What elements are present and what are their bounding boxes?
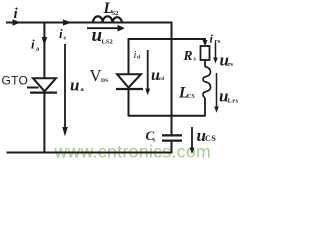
svg-text:rd: rd [159, 77, 164, 82]
arrow is (current into snubber) [63, 19, 72, 25]
inductor LS2 (stray inductance) [93, 16, 122, 22]
wire: diode cathode lead [128, 89, 130, 117]
arrow i (current into circuit) [13, 19, 21, 25]
wire: GTO anode lead [43, 23, 45, 79]
svg-text:rs: rs [228, 62, 234, 68]
svg-text:R: R [183, 48, 193, 63]
wire: GTO cathode lead [43, 93, 45, 154]
arrow ia (anode current) [42, 37, 48, 46]
svg-text:d: d [137, 55, 140, 61]
arrow irs (into R branch) [203, 40, 208, 46]
diode VDS [116, 74, 143, 89]
svg-text:CS: CS [205, 134, 216, 143]
wire: between RS and LCS [204, 60, 206, 67]
svg-text:LS2: LS2 [102, 39, 113, 46]
wire: snubber box bottom edge [129, 115, 206, 117]
svg-text:Lrs: Lrs [228, 98, 239, 105]
svg-text:GTO: GTO [2, 74, 29, 88]
svg-text:i: i [31, 37, 35, 52]
wire: top rail from source to right corner [6, 22, 172, 24]
voltage arrow ua (across GTO) [64, 44, 66, 129]
inductor LCS (coil) [203, 67, 211, 99]
wire: capacitor lower lead [171, 142, 173, 154]
resistor RS [201, 46, 210, 60]
svg-text:i: i [59, 26, 63, 41]
wire: snubber box top edge [129, 38, 207, 40]
capacitor CS [162, 134, 182, 136]
voltage arrow ud (across diode) [147, 50, 149, 91]
voltage arrow uLrs (across LCS) [216, 73, 218, 108]
svg-text:u: u [70, 76, 79, 95]
voltage arrow urs (across RS) [215, 43, 217, 60]
GTO thyristor [27, 78, 57, 92]
svg-text:S2: S2 [112, 10, 119, 17]
voltage arrow uCS (across CS) [191, 127, 193, 149]
wire: bottom rail [7, 152, 173, 154]
wire: right vertical from top rail down through snubber to capacitor [171, 22, 173, 135]
svg-text:u: u [92, 25, 103, 46]
svg-text:V: V [90, 66, 102, 85]
wire: LCS lower lead [204, 98, 206, 117]
svg-text:CS: CS [187, 94, 195, 100]
voltage arrow uLS2 [87, 27, 118, 29]
wire: diode branch upper lead [128, 38, 130, 75]
svg-text:DS: DS [101, 78, 108, 84]
